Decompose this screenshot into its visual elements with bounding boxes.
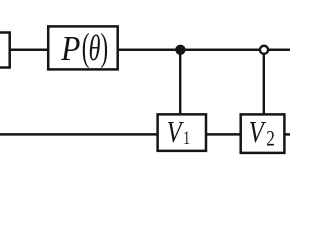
wire: bottom qubit wire, segment between V1 and V2 <box>206 133 241 136</box>
svg-text:1: 1 <box>183 127 190 149</box>
svg-text:2: 2 <box>266 127 275 152</box>
svg-text:θ: θ <box>89 28 101 68</box>
gate box (cut off at left edge) <box>0 33 10 68</box>
gate V2 box <box>241 114 285 152</box>
gate U1 P(theta) box <box>48 26 118 69</box>
svg-text:V: V <box>249 116 267 150</box>
open control (anti-control) on top wire <box>260 46 268 54</box>
wire: vertical control line from dot down to gate V1 <box>179 50 181 115</box>
gate V1 box <box>158 114 206 151</box>
wire: bottom qubit wire, left segment up to gate V1 <box>0 133 158 136</box>
wire: top qubit wire, left segment between cut-off gate and P(theta) <box>10 49 49 52</box>
wire: bottom qubit wire, short stub right of V2 <box>284 133 290 136</box>
wire: vertical control line from open circle down to gate V2 <box>263 50 265 115</box>
svg-text:P: P <box>60 30 80 69</box>
wire: top qubit wire, segment from P(theta) to right edge <box>118 49 290 52</box>
control dot on top wire <box>175 45 185 55</box>
svg-text:): ) <box>101 26 109 69</box>
